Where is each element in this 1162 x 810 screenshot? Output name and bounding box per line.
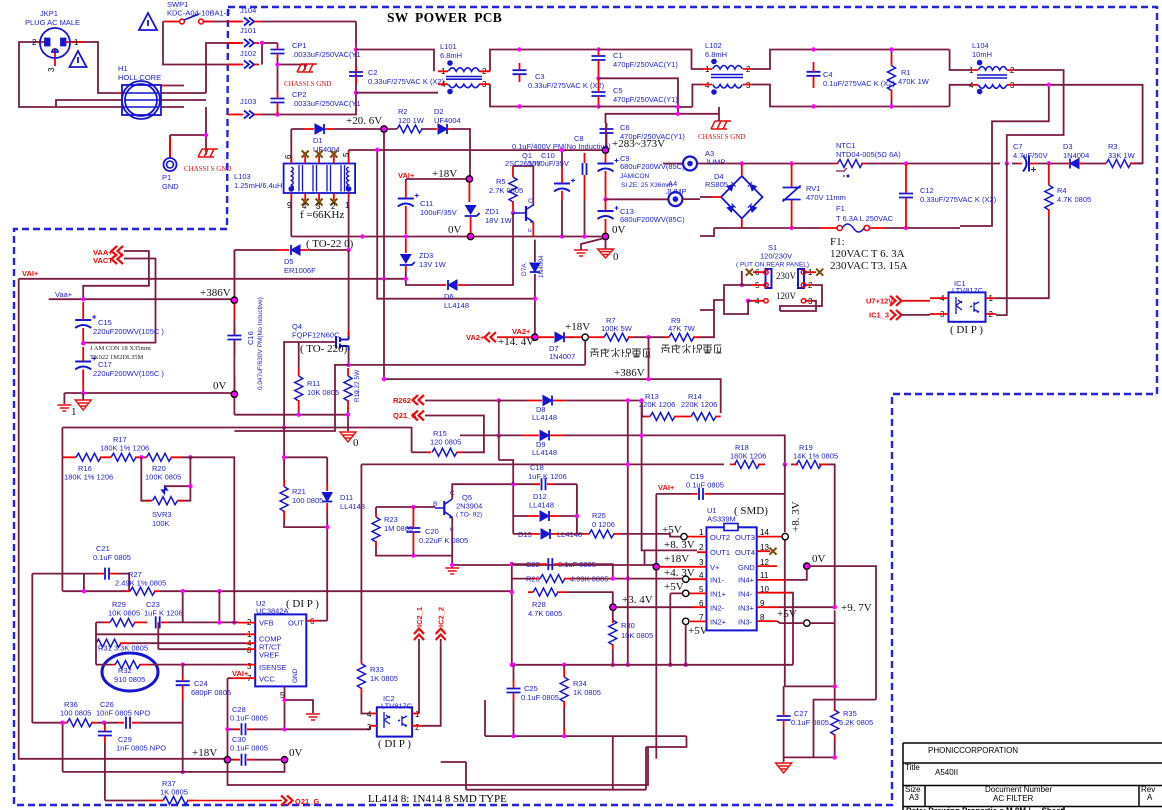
resistor R37	[163, 797, 188, 805]
red leads R29	[104, 621, 147, 623]
junction D12 right	[575, 514, 579, 518]
earth ground C17 left	[57, 405, 71, 411]
wire R1 stubs	[891, 50, 893, 107]
junction D8 left	[497, 398, 501, 402]
junction C15 bottom	[81, 341, 85, 345]
svg-text:C4: C4	[823, 70, 833, 79]
svg-text:1: 1	[71, 406, 77, 418]
svg-text:CP2: CP2	[292, 90, 307, 99]
svg-text:6.8mH: 6.8mH	[705, 50, 727, 59]
svg-text:C1: C1	[613, 51, 623, 60]
resistor R13	[650, 413, 675, 421]
svg-text:4.7K 0805: 4.7K 0805	[528, 609, 562, 618]
svg-text:R30: R30	[621, 621, 635, 630]
red leads L104	[971, 70, 1014, 85]
junction C4	[811, 47, 815, 51]
svg-text:13V 1W: 13V 1W	[419, 260, 447, 269]
svg-text:+4. 3V: +4. 3V	[664, 567, 695, 579]
svg-text:220K 1206: 220K 1206	[639, 400, 675, 409]
wire C18 left up	[499, 435, 513, 484]
wire R4 down to IC1 pin1	[996, 216, 1049, 298]
wire R21 D11 bottom	[284, 457, 327, 620]
svg-text:470pF/250VAC(Y1): 470pF/250VAC(Y1)	[613, 95, 678, 104]
red leads R5	[512, 166, 514, 213]
svg-text:OUT4: OUT4	[735, 548, 755, 557]
svg-text:C: C	[528, 198, 533, 205]
svg-text:C7: C7	[1013, 142, 1023, 151]
svg-text:2.49K 1% 0805: 2.49K 1% 0805	[115, 579, 166, 588]
wire pin12 right down	[810, 566, 876, 700]
X marks L103 unused pins top	[302, 151, 309, 158]
wire R29 C23 row	[96, 593, 238, 649]
wire core to chassis gnd / P1	[170, 107, 206, 158]
svg-text:0.1uF 0805: 0.1uF 0805	[230, 714, 268, 723]
wire D7A	[534, 240, 536, 334]
red pin stubs L103 top	[291, 150, 348, 200]
svg-text:11: 11	[760, 571, 769, 580]
wire pin2 from x641	[642, 401, 697, 566]
svg-text:6: 6	[284, 154, 293, 159]
dot L102 pin1	[711, 59, 717, 65]
junction C3 top	[517, 47, 521, 51]
X mark S1 pin6	[746, 269, 753, 276]
svg-text:J101: J101	[240, 26, 256, 35]
wire C17 gnd stub	[82, 393, 84, 400]
bridge D4 diodes	[727, 182, 756, 212]
red leads C18	[533, 483, 554, 485]
svg-text:PLUG AC MALE: PLUG AC MALE	[25, 18, 80, 27]
red leads CP1 CP2	[277, 46, 279, 115]
wire VCC riser bottom to right	[228, 747, 649, 785]
node pin14	[782, 533, 788, 539]
SVR3 wiper arrow	[162, 486, 168, 494]
svg-text:0V: 0V	[612, 224, 626, 236]
junction R18 R19 riser	[783, 462, 787, 466]
wire R34 leads	[563, 665, 565, 736]
capacitor C3	[513, 70, 527, 74]
wire Q4 gate	[284, 342, 336, 428]
wire C30 row joins	[63, 760, 285, 772]
svg-text:A: A	[1147, 793, 1153, 802]
svg-text:0.22uF K 0805: 0.22uF K 0805	[419, 536, 468, 545]
resistor R26	[540, 575, 565, 583]
svg-text:IN4-: IN4-	[738, 590, 753, 599]
wire C18 row	[513, 483, 577, 485]
wire VAI+ rail long	[19, 279, 406, 759]
wire R23 C20 bottom rail	[376, 546, 452, 556]
svg-text:14: 14	[760, 528, 769, 537]
svg-text:33K 1W: 33K 1W	[1108, 151, 1136, 160]
diode D7A vertical	[530, 263, 540, 272]
red leads C4	[813, 62, 815, 88]
svg-text:0.33uF/275VAC K (X2): 0.33uF/275VAC K (X2)	[368, 77, 445, 86]
node pin6	[610, 604, 616, 610]
wire C22 row	[512, 564, 613, 579]
wire J101/J102 join to CP1	[262, 43, 278, 65]
wire R11 top to gate	[298, 342, 300, 368]
node pin7	[683, 618, 689, 624]
wire C24 bottom	[182, 700, 184, 723]
junction C17 bottom	[81, 391, 85, 395]
dot L104 pin4	[977, 89, 983, 95]
svg-text:220uF200WV(105C ): 220uF200WV(105C )	[93, 369, 164, 378]
wire C26 row	[98, 723, 183, 772]
capacitor C19	[699, 488, 703, 500]
svg-text:T 6.3A L 250VAC: T 6.3A L 250VAC	[836, 214, 894, 223]
capacitor C9 polarized	[598, 159, 619, 172]
junction 386 rail	[646, 377, 650, 381]
svg-text:1N4004: 1N4004	[538, 255, 545, 278]
junction R27 row	[82, 589, 86, 593]
wire VAA+ to rail	[83, 251, 149, 299]
svg-text:0.1uF/275VAC K (X2): 0.1uF/275VAC K (X2)	[823, 79, 895, 88]
wire +283 node row	[470, 123, 606, 150]
wire D13 row + left riser	[513, 484, 584, 534]
IC2 internal transistor	[398, 716, 407, 727]
svg-text:CHASSI S GND: CHASSI S GND	[284, 80, 331, 88]
wire R5 top to Q1 collector	[513, 166, 533, 206]
chassis triangle ground 0	[598, 249, 614, 258]
resistor R4	[1045, 185, 1053, 210]
wire C21 row	[32, 574, 129, 723]
svg-text:180K 1% 1206: 180K 1% 1206	[100, 444, 149, 453]
wire R20 right to riser	[182, 457, 234, 622]
svg-text:C21: C21	[96, 544, 110, 553]
diode D6	[448, 280, 457, 290]
svg-text:.0033uF/250VAC(Y1: .0033uF/250VAC(Y1	[292, 50, 361, 59]
svg-text:D5: D5	[284, 257, 294, 266]
junction L103 pin5 row	[375, 148, 379, 152]
resistor R35	[831, 710, 839, 735]
wire C19 row	[656, 493, 785, 495]
connector J104	[244, 18, 254, 26]
resistor R32	[115, 661, 140, 669]
svg-text:LL4148: LL4148	[529, 501, 554, 510]
red leads R31	[96, 642, 130, 644]
title block table	[903, 743, 1162, 810]
wire pin3 +18 node down	[655, 570, 657, 759]
red leads C2	[355, 66, 357, 84]
wire C28 row	[228, 726, 371, 730]
svg-text:+5V: +5V	[664, 581, 684, 593]
junction C1 top	[596, 47, 600, 51]
red leads SWP1	[163, 21, 213, 23]
wire Q1 emitter down	[532, 222, 534, 237]
svg-text:GND: GND	[738, 563, 755, 572]
wire C29 top bottom	[104, 723, 106, 801]
wire x627 vertical	[627, 435, 629, 562]
svg-text:JKP1: JKP1	[40, 9, 58, 18]
svg-text:R4: R4	[1057, 186, 1067, 195]
red leads C12	[905, 164, 907, 229]
transformer L103	[284, 164, 356, 194]
svg-text:10K 0805: 10K 0805	[108, 609, 140, 618]
capacitor C5	[592, 92, 606, 96]
wire 0V rail left	[291, 236, 602, 238]
thermistor NTC1	[838, 160, 863, 168]
S1 terminals	[764, 270, 806, 303]
red lead ZD1 bottom	[470, 217, 472, 233]
svg-text:R5: R5	[496, 177, 506, 186]
X mark S1 pin1	[816, 269, 823, 276]
svg-text:470V 11mm: 470V 11mm	[806, 193, 846, 202]
warning triangle 1	[139, 13, 157, 30]
transformer L101	[446, 68, 482, 88]
capacitor C1	[592, 56, 606, 60]
wire R36 left	[32, 723, 62, 772]
svg-text:C3: C3	[535, 72, 545, 81]
node pin8	[804, 620, 810, 626]
diode D12	[540, 511, 549, 521]
svg-text:120VAC T 6. 3A: 120VAC T 6. 3A	[830, 248, 905, 260]
svg-text:LTV817C: LTV817C	[952, 286, 984, 295]
wire R7 to R9	[634, 336, 664, 338]
wire VACT to C15 bottom	[83, 259, 155, 344]
resistor R21	[280, 487, 288, 512]
junction AC row dots	[740, 161, 744, 165]
junction C18 left	[511, 482, 515, 486]
resistor R36	[67, 719, 92, 727]
wire bottom loop to +5 wire	[441, 736, 687, 790]
junction bottom rail	[511, 734, 515, 738]
red leads C16	[233, 304, 235, 391]
connector J102	[244, 61, 254, 69]
junction pin10 loop	[668, 663, 672, 667]
capacitor C18	[542, 478, 546, 490]
junction 386 rail left	[382, 377, 386, 381]
wire C27 R35 box top	[784, 686, 835, 712]
red leads R4	[1048, 163, 1050, 216]
node pin4	[683, 576, 689, 582]
junction R5 base	[511, 211, 515, 215]
junction rail-x627	[626, 462, 630, 466]
resistor R23	[372, 517, 380, 542]
red leads D12	[528, 515, 560, 517]
wire L103 pin1 down to D5 row	[348, 199, 350, 250]
svg-text:VA2+: VA2+	[512, 327, 531, 336]
earth ground below 0V	[574, 250, 588, 256]
svg-text:R2: R2	[398, 107, 408, 116]
svg-text:2: 2	[699, 543, 704, 552]
wire L103 pin1 junction down to Q4	[348, 250, 350, 330]
wire D8 row	[499, 401, 628, 436]
junction R30 rail	[611, 663, 615, 667]
capacitor C21	[105, 568, 109, 580]
red leads R32	[112, 664, 150, 666]
red leads L102	[702, 69, 752, 85]
junction C26 left	[102, 721, 106, 725]
svg-text:100K 5W: 100K 5W	[601, 324, 633, 333]
wire x784 riser down to C27	[784, 464, 786, 686]
wire R27 row extension to R28	[234, 564, 512, 665]
red leads plug	[40, 42, 170, 158]
wire U2 OUT right	[318, 620, 327, 622]
red leads R13 R14	[645, 416, 721, 418]
wire top rail to L102 pin1	[599, 50, 703, 70]
svg-text:GND: GND	[292, 668, 299, 683]
resistor R16	[76, 453, 101, 461]
svg-text:IN2+: IN2+	[710, 618, 727, 627]
svg-text:JUMP: JUMP	[666, 187, 686, 196]
junction 0V rail dots	[360, 234, 364, 238]
svg-text:R1: R1	[901, 68, 911, 77]
red leads D5	[278, 249, 310, 251]
red leads D4	[712, 164, 742, 229]
svg-text:3: 3	[367, 723, 372, 732]
svg-text:F1: F1	[836, 204, 845, 213]
svg-text:( DI P ): ( DI P )	[286, 598, 319, 610]
switch S1 block	[766, 269, 772, 288]
capacitor C28	[242, 723, 246, 735]
U1 red pin stubs right	[757, 537, 789, 622]
varistor RV1	[783, 186, 801, 202]
svg-text:0V: 0V	[812, 553, 826, 565]
wire L104 pin3 to R3 right end	[1014, 85, 1143, 164]
svg-text:ZD1: ZD1	[485, 207, 499, 216]
svg-text:R28: R28	[532, 600, 546, 609]
svg-text:47K 7W: 47K 7W	[668, 324, 696, 333]
red leads C17	[82, 347, 84, 393]
svg-text:ISENSE: ISENSE	[259, 663, 287, 672]
svg-text:100 0805: 100 0805	[292, 496, 323, 505]
svg-text:C17: C17	[98, 360, 112, 369]
wire C25 R34 rail	[512, 664, 793, 666]
svg-text:0.1uF 0805: 0.1uF 0805	[521, 693, 559, 702]
U1 red pin stubs left	[660, 537, 707, 622]
wire Q5 emitter down	[451, 517, 453, 565]
svg-text:100 0805: 100 0805	[60, 709, 91, 718]
svg-text:D11: D11	[340, 493, 353, 502]
diode D13	[541, 529, 550, 539]
svg-text:Q21_G: Q21_G	[295, 797, 319, 806]
svg-text:J104: J104	[240, 6, 256, 15]
svg-text:IN4+: IN4+	[738, 576, 755, 585]
red leads R25	[584, 533, 620, 535]
wire L102 pin2 to C4 box	[752, 50, 950, 107]
wire D8 to vertical x498	[498, 401, 500, 436]
svg-text:C12: C12	[920, 186, 934, 195]
connector P1	[164, 158, 177, 171]
svg-text:AC FILTER: AC FILTER	[993, 794, 1034, 803]
junction R12 bottom	[346, 413, 350, 417]
wire top rail C2 to L101 pin1	[356, 50, 438, 93]
junction base C20	[411, 505, 415, 509]
svg-text:5: 5	[342, 152, 351, 157]
connector J103	[244, 111, 254, 119]
svg-text:J103: J103	[240, 97, 256, 106]
red leads C1	[598, 50, 600, 79]
capacitor C7 polarized	[1023, 156, 1036, 173]
junction gate rail	[282, 425, 286, 429]
capacitor C26	[126, 717, 130, 729]
red leads C15	[82, 302, 84, 343]
wire R31 row	[96, 591, 245, 664]
capacitor C12	[899, 194, 913, 198]
svg-text:RV1: RV1	[806, 184, 820, 193]
svg-text:1: 1	[699, 528, 704, 537]
junction C3 bottom	[517, 104, 521, 108]
IC1 internal transistor	[970, 302, 979, 313]
chassis triangle ground C27	[776, 763, 792, 773]
label cement resistor 1 (CJK drawn)	[590, 348, 651, 357]
svg-text:0.047uF/630V PM(No Inductive): 0.047uF/630V PM(No Inductive)	[257, 297, 264, 390]
red leads R28	[528, 591, 565, 593]
resistor R34	[560, 677, 568, 702]
chevron IC2_1	[414, 629, 424, 641]
svg-text:10mH: 10mH	[972, 50, 992, 59]
wire S1 down left	[700, 300, 724, 310]
connector JKP1 plug	[40, 28, 70, 58]
svg-text:R3: R3	[1108, 142, 1118, 151]
optocoupler IC2 box	[377, 707, 412, 736]
svg-text:120V: 120V	[776, 291, 797, 301]
svg-text:+386V: +386V	[200, 287, 231, 299]
node 0V bottom	[281, 757, 287, 763]
transformer L102	[711, 66, 743, 89]
junction C2 bottom rail	[354, 91, 358, 95]
chassis ground symbol CP	[297, 64, 317, 72]
svg-text:3: 3	[47, 67, 56, 72]
svg-text:V+: V+	[710, 563, 720, 572]
red leads IC2	[370, 714, 422, 726]
wire pin10 loop	[789, 593, 793, 665]
junction C6 row	[676, 112, 680, 116]
svg-text:2: 2	[415, 723, 420, 732]
capacitor C22	[548, 558, 552, 570]
svg-text:C27: C27	[794, 709, 808, 718]
chassis triangle ground C17	[75, 400, 91, 410]
node 0V right	[602, 233, 608, 239]
wire R37 to Q21_G red	[194, 800, 282, 802]
wire pin7 down	[685, 625, 687, 665]
junction C9 bottom	[603, 197, 607, 201]
svg-text:+8. 3V: +8. 3V	[664, 539, 695, 551]
wire core top to J101	[166, 43, 240, 93]
red leads R26	[534, 578, 572, 580]
svg-text:14K 1% 0805: 14K 1% 0805	[793, 452, 838, 461]
wire R19 right riser down	[828, 464, 835, 607]
svg-text:18V 1W: 18V 1W	[485, 216, 513, 225]
capacitor C8	[583, 163, 587, 175]
wire R21 D11 top	[284, 428, 327, 481]
red leads R30	[612, 620, 614, 650]
chassis ground symbol C4 area	[711, 121, 731, 129]
wire chassis gnd stub	[718, 107, 720, 121]
svg-text:LL414 8: 1N414 8 SMD TYPE: LL414 8: 1N414 8 SMD TYPE	[368, 793, 507, 805]
red leads C29	[104, 725, 106, 743]
wire D5 row	[234, 249, 348, 251]
IC2 internal LED	[384, 712, 390, 728]
red leads ZD3	[405, 239, 407, 272]
resistor R28	[533, 588, 558, 596]
red leads S1	[752, 272, 816, 301]
capacitor C29	[98, 732, 112, 736]
wire bottom rail to L102 pin4	[599, 85, 703, 108]
red leads D2	[434, 128, 452, 130]
wire R37 row	[105, 800, 148, 802]
junction R1	[889, 47, 893, 51]
red leads J connectors	[228, 22, 262, 115]
resistor R31	[96, 639, 121, 647]
red leads R33	[360, 660, 362, 694]
red leads C28	[234, 728, 254, 730]
node VA2+	[532, 334, 538, 340]
svg-text:+18V: +18V	[565, 321, 590, 333]
svg-text:1uF K 1206: 1uF K 1206	[528, 472, 567, 481]
junction SVR3 wiper	[188, 484, 192, 488]
svg-text:1uF K 1206: 1uF K 1206	[144, 609, 183, 618]
diode D7	[555, 332, 564, 342]
